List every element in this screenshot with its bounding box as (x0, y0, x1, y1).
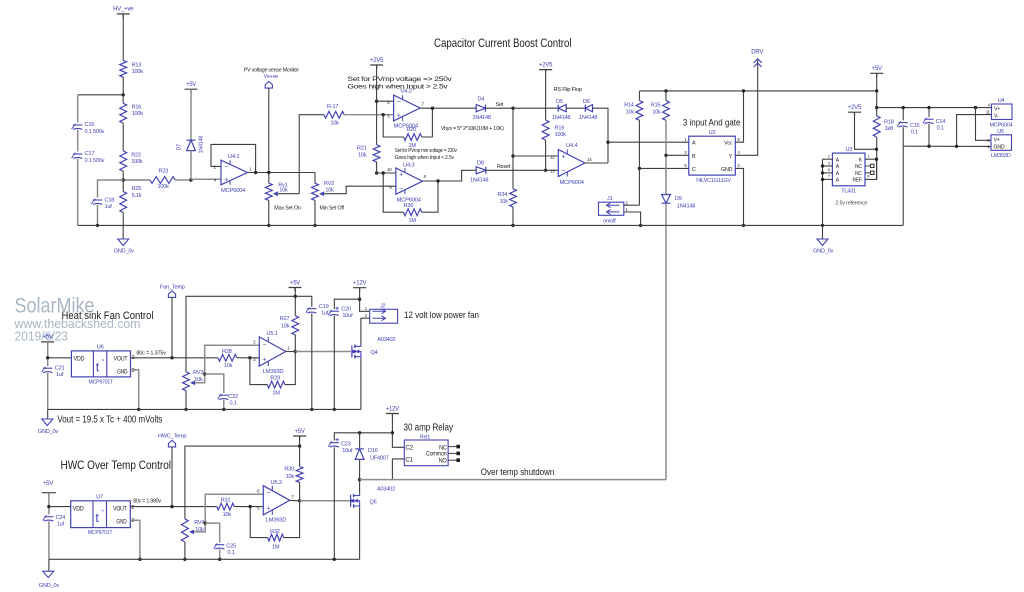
node junction (875, 158, 878, 161)
svg-text:12 volt low power fan: 12 volt low power fan (404, 309, 479, 320)
svg-text:+: + (224, 177, 228, 184)
svg-text:HWC_Temp: HWC_Temp (158, 434, 186, 440)
svg-text:3: 3 (132, 368, 135, 374)
wire RV3 wiper (195, 345, 259, 383)
power +2V5 left (370, 65, 383, 69)
svg-text:U7: U7 (96, 494, 103, 500)
svg-text:4: 4 (738, 150, 741, 155)
svg-text:Common: Common (426, 452, 447, 458)
power +12V relay (386, 414, 399, 418)
wire (191, 178, 221, 180)
svg-text:Q4: Q4 (371, 350, 378, 356)
svg-text:10k: 10k (286, 474, 295, 480)
svg-text:MCP6004: MCP6004 (560, 180, 585, 186)
capacitor C16 (73, 124, 82, 126)
svg-text:GND_0v: GND_0v (813, 249, 834, 255)
node junction (183, 558, 186, 561)
svg-text:C23: C23 (341, 442, 351, 448)
node junction (742, 89, 745, 92)
op-amp U4.4 (558, 150, 585, 177)
svg-text:t: t (96, 361, 100, 375)
IC U5 power box (991, 135, 1012, 151)
node junction (902, 106, 905, 109)
svg-text:2: 2 (365, 313, 368, 318)
wire (223, 400, 225, 410)
svg-text:C2: C2 (405, 445, 413, 451)
svg-text:10k: 10k (626, 110, 635, 116)
svg-text:U5: U5 (997, 129, 1004, 135)
pin relay contact stubs (448, 446, 456, 448)
wire (665, 120, 667, 194)
wire (902, 146, 904, 225)
svg-text:8: 8 (424, 174, 427, 179)
svg-text:2: 2 (625, 200, 628, 205)
wire C22 link (205, 374, 224, 393)
wire (311, 313, 313, 409)
power +2V5 TL431 (848, 112, 861, 116)
svg-text:Set for PVmp min voltage = 230: Set for PVmp min voltage = 230v (395, 148, 458, 154)
node junction (431, 107, 434, 110)
node junction (46, 356, 49, 359)
svg-text:A03402: A03402 (377, 486, 395, 492)
svg-text:A: A (836, 178, 840, 184)
svg-text:1M: 1M (409, 218, 417, 224)
wire U4.4 output (585, 162, 608, 164)
svg-text:+5V: +5V (43, 335, 53, 341)
wire (333, 447, 335, 559)
ground GND_0v right (822, 225, 824, 239)
svg-text:VOUT: VOUT (114, 356, 128, 362)
wire net Reset (486, 169, 559, 171)
wire C25 link (205, 523, 220, 542)
svg-text:NC: NC (439, 445, 447, 451)
capacitor C21 (43, 367, 52, 369)
wire relay +12 link (334, 433, 392, 441)
svg-text:Min Set Off: Min Set Off (320, 206, 345, 212)
wire (512, 207, 514, 225)
potentiometer RV3 (183, 372, 190, 391)
resistor R21 (373, 145, 380, 162)
svg-text:+12V: +12V (353, 281, 367, 287)
resistor R32 (268, 534, 284, 541)
node junction (122, 93, 125, 96)
svg-text:10uf: 10uf (342, 313, 353, 319)
resistor R13 (120, 60, 127, 77)
svg-text:A: A (836, 157, 840, 163)
wire (299, 482, 301, 500)
wire (175, 179, 191, 181)
diode D8 (476, 167, 486, 174)
transistor Q5 A03402 (350, 495, 352, 507)
svg-text:NC: NC (855, 171, 862, 177)
svg-text:A: A (836, 171, 840, 177)
svg-text:1: 1 (867, 154, 870, 159)
svg-text:+5V: +5V (872, 66, 882, 72)
wire U4 V- feed (957, 115, 992, 147)
capacitor C20 (330, 310, 339, 312)
wire top section ground rail (78, 224, 904, 226)
op-amp U5.1 (259, 337, 286, 366)
svg-text:+: + (397, 112, 401, 119)
node junction (170, 505, 173, 508)
capacitor C19 (307, 308, 316, 310)
svg-text:10uf: 10uf (342, 448, 353, 454)
svg-text:1: 1 (684, 137, 687, 142)
node junction (298, 499, 301, 502)
svg-text:10k: 10k (224, 363, 233, 369)
resistor R34 (510, 189, 517, 207)
svg-text:+: + (399, 172, 403, 179)
svg-text:C20: C20 (341, 307, 351, 313)
wire J1 pin1 (624, 212, 641, 225)
diode D5 (558, 105, 566, 112)
node junction (742, 224, 745, 227)
wire TL431 A pins (823, 158, 833, 160)
wire Q5 source (359, 508, 361, 560)
wire (77, 95, 79, 123)
wire Q5 drain (359, 480, 361, 494)
wire (359, 459, 361, 479)
wire fan ground rail (48, 408, 361, 410)
wire fan +5V to C19 (295, 296, 312, 306)
wire Q4 source (360, 359, 362, 410)
resistor R19 (542, 120, 549, 140)
svg-text:C1: C1 (405, 457, 413, 463)
svg-text:Vs+ve: Vs+ve (264, 74, 279, 80)
diode D4 (476, 105, 485, 112)
svg-text:Capacitor Current Boost Contro: Capacitor Current Boost Control (434, 36, 572, 50)
svg-text:6: 6 (828, 167, 831, 172)
node junction (875, 89, 878, 92)
svg-text:Set for PVmp voltage => 250v: Set for PVmp voltage => 250v (347, 77, 451, 83)
svg-text:D5: D5 (556, 99, 563, 105)
svg-text:1N4148: 1N4148 (677, 203, 695, 209)
wire RV4 wiper (194, 494, 263, 532)
svg-text:13: 13 (550, 169, 555, 174)
wire (294, 335, 296, 352)
svg-text:0.1: 0.1 (937, 126, 944, 132)
svg-text:MCP9701T: MCP9701T (89, 379, 114, 385)
power +5V fan mid (289, 288, 302, 292)
svg-text:10k: 10k (500, 199, 509, 205)
sensor U7 MCP9701T (71, 501, 131, 528)
svg-text:GND: GND (994, 144, 1005, 150)
svg-text:3: 3 (684, 150, 687, 155)
wire (360, 288, 370, 312)
wire (123, 179, 150, 181)
wire (294, 288, 296, 316)
node junction (974, 106, 977, 109)
wire (49, 506, 71, 508)
wire (876, 137, 878, 179)
node junction (333, 408, 336, 411)
wire op-amp U4.1 output (256, 172, 315, 174)
svg-text:+2V5: +2V5 (848, 105, 862, 111)
svg-text:R28: R28 (222, 349, 232, 355)
svg-text:D9: D9 (675, 196, 682, 202)
svg-text:1N4148: 1N4148 (473, 115, 491, 121)
node junction (310, 408, 313, 411)
svg-text:Vhys = 5* 2*10K(10M + 10K): Vhys = 5* 2*10K(10M + 10K) (441, 126, 504, 132)
svg-text:100k: 100k (158, 184, 170, 190)
svg-text:3 input And gate: 3 input And gate (683, 118, 741, 128)
resistor R22 (120, 151, 127, 171)
svg-text:−: − (397, 99, 401, 106)
svg-text:RV3: RV3 (193, 370, 203, 376)
svg-text:10: 10 (387, 167, 392, 172)
svg-text:PV voltage sense Monitor: PV voltage sense Monitor (244, 68, 299, 74)
wire (876, 73, 878, 116)
svg-text:−: − (399, 186, 403, 193)
svg-text:1N4148: 1N4148 (470, 177, 488, 183)
svg-text:D6: D6 (583, 99, 590, 105)
diode D7 (187, 140, 196, 150)
svg-text:1: 1 (287, 346, 290, 351)
svg-text:1N4148: 1N4148 (199, 136, 205, 154)
node junction (267, 224, 270, 227)
node junction (249, 505, 252, 508)
svg-text:R19: R19 (555, 126, 565, 132)
wire TL431 K REF (865, 159, 877, 179)
wire (122, 77, 124, 103)
power HV_+ve (117, 14, 130, 18)
node junction (313, 224, 316, 227)
power +5V far right (870, 73, 883, 77)
svg-text:R25: R25 (132, 186, 142, 192)
node junction (248, 356, 251, 359)
wire (638, 120, 640, 205)
svg-text:R26: R26 (404, 203, 414, 209)
svg-text:U4.1: U4.1 (228, 154, 239, 160)
svg-text:0.1 500v: 0.1 500v (85, 129, 105, 135)
wire fan feedback (250, 358, 267, 385)
wire hwc feedback (250, 507, 267, 538)
wire (48, 521, 50, 559)
svg-text:°: ° (102, 358, 105, 366)
capacitor C17 (73, 153, 82, 155)
capacitor C25 (215, 544, 224, 546)
wire (237, 357, 259, 359)
svg-text:5.1k: 5.1k (132, 193, 142, 199)
svg-text:Set: Set (496, 102, 504, 108)
wire over temp shutdown (360, 479, 666, 481)
svg-text:1N4148: 1N4148 (552, 115, 570, 121)
wire (77, 159, 79, 226)
wire U5 V+ feed (976, 108, 992, 141)
wire (122, 14, 124, 60)
svg-text:6: 6 (257, 489, 260, 494)
svg-text:5: 5 (738, 137, 741, 142)
wire (392, 414, 404, 448)
node junction (358, 298, 361, 301)
wire C20 link (334, 299, 359, 309)
wire (268, 88, 270, 172)
svg-text:2: 2 (131, 505, 134, 511)
wire U2 GND (735, 168, 743, 225)
wire (566, 107, 585, 109)
wire (344, 114, 393, 116)
wire U5.2 output to gate (290, 499, 300, 501)
capacitor C18 (93, 199, 102, 201)
node junction (203, 372, 206, 375)
op-amp U5.2 (263, 486, 290, 515)
ground GND_0v (122, 225, 124, 239)
svg-text:NO: NO (439, 458, 448, 464)
wire U2 Vcc (735, 91, 743, 142)
wire +5V rail right (877, 107, 992, 109)
relay Rel1 (404, 440, 448, 466)
resistor R15 (665, 91, 667, 101)
svg-text:GND_0v: GND_0v (38, 429, 59, 435)
svg-text:Y: Y (729, 154, 733, 160)
svg-text:C17: C17 (85, 151, 95, 157)
svg-text:U6: U6 (97, 344, 104, 350)
node junction (375, 171, 378, 174)
wire (234, 506, 263, 508)
resistor R25 (120, 192, 127, 213)
node junction (436, 179, 439, 182)
svg-text:GND: GND (117, 369, 128, 375)
svg-text:C21: C21 (55, 366, 65, 372)
svg-text:80c = 1.375v: 80c = 1.375v (136, 350, 166, 356)
potentiometer RV4 (182, 519, 189, 542)
node junction (218, 558, 221, 561)
svg-text:1uf: 1uf (56, 372, 64, 378)
svg-text:100k: 100k (132, 111, 144, 117)
svg-text:2: 2 (828, 154, 831, 159)
svg-text:U4.3: U4.3 (403, 162, 414, 168)
wire (47, 342, 49, 366)
node junction (511, 107, 514, 110)
svg-text:10k: 10k (358, 152, 367, 158)
svg-text:10k: 10k (281, 323, 290, 329)
svg-text:Over temp shutdown: Over temp shutdown (481, 466, 555, 477)
diode D10 (359, 433, 361, 448)
svg-text:R27: R27 (280, 316, 290, 322)
wire (77, 130, 79, 152)
wire (122, 213, 124, 226)
resistor R27 (292, 316, 299, 335)
power +5V (185, 89, 198, 93)
node junction (639, 224, 642, 227)
node junction (511, 154, 514, 157)
svg-text:−: − (562, 168, 566, 175)
diode D9 (662, 195, 671, 204)
svg-text:U4.2: U4.2 (400, 89, 411, 95)
wire (545, 70, 547, 120)
svg-text:Heat sink Fan Control: Heat sink Fan Control (62, 310, 154, 322)
svg-text:D7: D7 (177, 144, 183, 151)
svg-text:Q5: Q5 (370, 499, 377, 505)
svg-text:VDD: VDD (73, 506, 85, 512)
resistor R14 (638, 91, 640, 101)
svg-text:J2: J2 (380, 304, 385, 310)
svg-text:DRV: DRV (751, 50, 763, 56)
svg-text:10k: 10k (223, 512, 232, 518)
wire (855, 112, 877, 149)
node junction (184, 408, 187, 411)
wire J2 pin2 to Q4 (361, 318, 370, 344)
svg-text:R16: R16 (132, 105, 142, 111)
svg-text:1M: 1M (272, 545, 280, 551)
wire op-amp U4.2 feedback R20 (383, 115, 403, 137)
svg-text:R29: R29 (270, 376, 280, 382)
wire (422, 181, 438, 212)
node junction (664, 89, 667, 92)
svg-text:2: 2 (738, 163, 741, 168)
svg-text:C25: C25 (226, 544, 236, 550)
resistor R18 (873, 116, 880, 137)
svg-text:C18: C18 (105, 197, 115, 203)
wire (190, 151, 192, 180)
svg-text:R23: R23 (159, 169, 169, 175)
wire (98, 180, 124, 198)
svg-text:C16: C16 (85, 122, 95, 128)
svg-text:A03402: A03402 (377, 337, 395, 343)
wire U7 GND (130, 520, 140, 559)
svg-text:2.5v reference: 2.5v reference (835, 200, 867, 206)
node junction (606, 141, 609, 144)
capacitor C14 (928, 108, 930, 117)
resistor R23 (150, 177, 175, 184)
svg-text:80c = 1.980v: 80c = 1.980v (133, 499, 161, 505)
svg-text:6: 6 (684, 163, 687, 168)
svg-text:RV4: RV4 (194, 520, 204, 526)
wire AND gate input A (608, 141, 689, 143)
wire (171, 447, 173, 507)
node junction (391, 431, 394, 434)
node junction (204, 521, 207, 524)
svg-text:10k: 10k (279, 188, 288, 194)
svg-text:V+: V+ (994, 137, 1000, 143)
svg-text:1uf: 1uf (321, 310, 329, 316)
svg-text:30 amp Relay: 30 amp Relay (404, 422, 454, 433)
node junction (96, 224, 99, 227)
svg-text:R22: R22 (131, 152, 141, 158)
wire U5.1 output to gate (286, 351, 296, 353)
svg-text:R15: R15 (651, 102, 661, 108)
op-amp U4.1 (221, 160, 248, 185)
svg-text:R20: R20 (407, 127, 417, 133)
wire U4.3 output (422, 170, 476, 181)
svg-text:0.1: 0.1 (911, 130, 918, 136)
svg-text:11: 11 (986, 109, 991, 114)
svg-text:Reset: Reset (497, 164, 511, 170)
svg-text:R34: R34 (498, 192, 508, 198)
svg-text:C15: C15 (910, 123, 920, 129)
IC U3 TL431 (832, 153, 865, 186)
svg-text:7: 7 (291, 494, 294, 499)
svg-text:LM393D: LM393D (266, 518, 287, 524)
wire (285, 353, 295, 385)
IC U2 74LVC1G11GV (689, 136, 736, 175)
svg-text:12: 12 (550, 154, 555, 159)
wire (48, 493, 50, 515)
svg-text:Fan_Temp: Fan_Temp (160, 285, 185, 291)
svg-text:+2V5: +2V5 (370, 58, 384, 64)
svg-text:C24: C24 (56, 515, 66, 521)
wire (299, 436, 301, 467)
power +5V hwc mid (293, 436, 306, 440)
node junction (189, 178, 192, 181)
wire AND gate rail (639, 90, 876, 92)
resistor R30 (296, 467, 303, 483)
svg-text:+2V5: +2V5 (539, 62, 553, 68)
wire net Set (485, 107, 558, 109)
wire (47, 373, 49, 410)
potentiometer RV1 (268, 173, 270, 184)
svg-text:4: 4 (988, 103, 991, 108)
